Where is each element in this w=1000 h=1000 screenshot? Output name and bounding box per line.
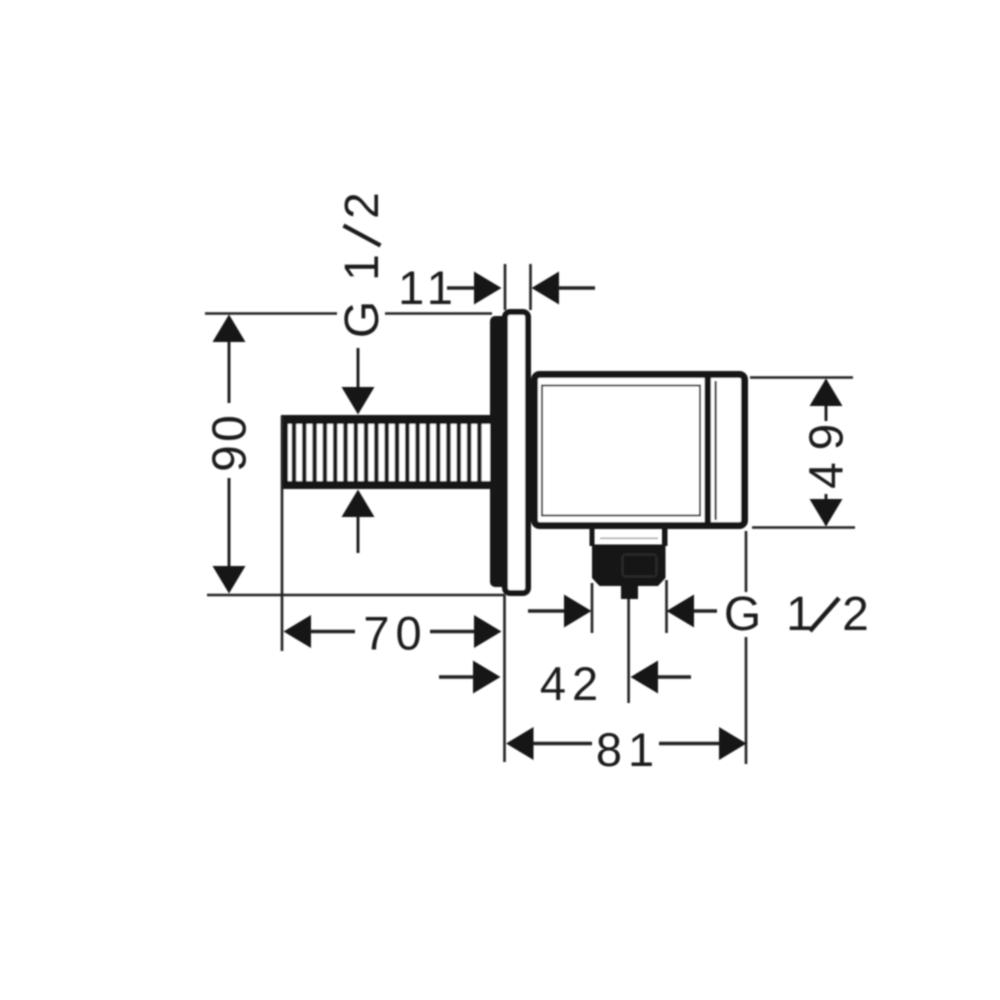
svg-text:G: G xyxy=(724,588,761,641)
svg-text:42: 42 xyxy=(540,657,604,710)
dimension 90 arrow down xyxy=(213,566,246,594)
dimension 70 arrow left xyxy=(284,615,312,648)
dimension 81 line right xyxy=(659,742,720,745)
svg-text:4: 4 xyxy=(801,462,854,489)
leader G 1/2 top line xyxy=(357,348,360,388)
outlet neck inner line xyxy=(600,538,658,540)
threaded pipe outline xyxy=(281,415,490,489)
dimension 70 line right xyxy=(430,630,474,633)
threaded pipe hatch xyxy=(294,424,479,481)
extension line plate front lower xyxy=(503,595,506,762)
svg-text:70: 70 xyxy=(363,607,427,660)
extension line outlet right xyxy=(665,580,668,633)
dimension 49 arrow down xyxy=(810,499,843,527)
dimension 42 arrow left xyxy=(631,661,659,694)
leader G 1/2 bottom line left xyxy=(528,609,564,612)
dimension 81 arrow right xyxy=(719,727,747,760)
dimension 42 arrow right xyxy=(473,661,501,694)
outlet nut facet xyxy=(623,555,657,577)
extension line pipe left xyxy=(281,416,284,651)
leader G 1/2 bottom arrow right xyxy=(564,595,592,628)
dimension 11 arrow left xyxy=(532,272,560,305)
svg-text:2: 2 xyxy=(842,588,869,641)
extension line outlet left xyxy=(591,583,594,633)
svg-text:0: 0 xyxy=(204,415,257,442)
svg-text:1: 1 xyxy=(786,588,813,641)
dimension 70 arrow right xyxy=(474,615,502,648)
extension line body right lower xyxy=(745,531,748,592)
dimension 90 arrow up xyxy=(213,315,246,343)
leader pipe arrow up xyxy=(342,490,375,518)
outlet nut xyxy=(592,545,666,587)
dimension 49 arrow up xyxy=(810,379,843,407)
outlet centerline xyxy=(627,599,630,703)
outlet stem xyxy=(621,585,638,599)
dimension 70 line left xyxy=(311,630,356,633)
leader G 1/2 top arrow down xyxy=(342,387,375,415)
dimension 42 line left xyxy=(439,675,474,678)
dimension 11 line left xyxy=(447,286,475,289)
body end cap divider xyxy=(705,378,712,522)
wall plate escutcheon xyxy=(505,312,528,593)
wall plate black bar xyxy=(490,316,507,587)
dimension 81 arrow left xyxy=(506,727,534,760)
body inner rectangle xyxy=(542,386,700,516)
body end cap thin line xyxy=(715,381,717,520)
dimension 11 arrow right xyxy=(474,272,502,305)
leader G 1/2 bottom line right xyxy=(694,609,718,612)
extension line 49 top xyxy=(750,376,853,379)
dimension 11 line right xyxy=(559,286,596,289)
body outline xyxy=(535,375,745,526)
dimension 49 line xyxy=(825,380,828,421)
leader G 1/2 bottom arrow left xyxy=(667,595,695,628)
svg-text:9: 9 xyxy=(204,445,257,472)
extension line plate back upper xyxy=(529,264,532,310)
outlet neck right wall xyxy=(662,529,668,546)
extension line bottom horizontal xyxy=(207,594,505,597)
dimension 90 line xyxy=(228,341,231,403)
extension line plate front upper xyxy=(504,264,507,310)
extension line top horizontal xyxy=(205,312,337,315)
svg-text:G: G xyxy=(336,301,389,338)
outlet neck left wall xyxy=(590,529,595,546)
svg-text:2: 2 xyxy=(336,192,389,219)
leader pipe line xyxy=(357,517,360,554)
svg-text:81: 81 xyxy=(596,723,660,776)
svg-text:1: 1 xyxy=(336,254,389,281)
extension line 49 bottom xyxy=(752,526,855,529)
svg-text:9: 9 xyxy=(801,424,854,451)
dimension 81 line left xyxy=(533,742,592,745)
dimension 42 line right xyxy=(658,675,692,678)
